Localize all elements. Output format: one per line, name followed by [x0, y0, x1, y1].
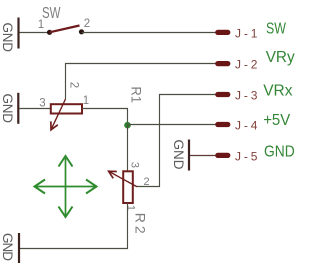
- wire: [19, 108, 50, 110]
- svg-text:J-3: J-3: [235, 88, 258, 102]
- switch SW: [38, 5, 90, 35]
- svg-text:2: 2: [144, 176, 150, 188]
- pin J-3: [218, 83, 293, 103]
- pin J-2: [218, 49, 295, 71]
- svg-text:GND: GND: [171, 140, 186, 170]
- svg-text:GND: GND: [0, 23, 15, 53]
- potentiometer R2: [109, 162, 150, 234]
- ground: [0, 93, 18, 124]
- wire: [82, 109, 128, 126]
- wire: [128, 124, 218, 126]
- wire: [20, 203, 128, 249]
- svg-text:SW: SW: [266, 20, 287, 37]
- svg-text:J-5: J-5: [235, 149, 258, 163]
- wire: [190, 155, 217, 157]
- wire: [66, 64, 218, 100]
- svg-text:VRy: VRy: [266, 49, 295, 66]
- pin J-5: [218, 143, 295, 163]
- potentiometer R1: [39, 82, 144, 130]
- svg-text:VRx: VRx: [263, 83, 292, 100]
- svg-text:2: 2: [84, 18, 90, 30]
- pin J-4: [218, 112, 291, 132]
- svg-text:SW: SW: [42, 5, 61, 22]
- svg-text:2: 2: [67, 82, 79, 88]
- joystick direction arrows: [35, 156, 97, 217]
- svg-text:+5V: +5V: [263, 112, 290, 129]
- svg-text:1: 1: [125, 205, 137, 211]
- svg-text:GND: GND: [264, 143, 295, 160]
- svg-text:J-1: J-1: [235, 26, 258, 40]
- node junction: [124, 122, 131, 129]
- svg-text:3: 3: [128, 162, 140, 168]
- svg-text:GND: GND: [0, 233, 15, 261]
- ground: [0, 18, 19, 53]
- svg-text:3: 3: [39, 98, 45, 110]
- ground: [171, 140, 189, 171]
- svg-text:1: 1: [38, 19, 44, 31]
- svg-text:J-4: J-4: [235, 118, 258, 132]
- wire: [82, 32, 218, 34]
- svg-text:GND: GND: [0, 94, 15, 124]
- wire: [20, 32, 49, 34]
- svg-text:1: 1: [83, 95, 89, 107]
- pin J-1: [218, 20, 287, 40]
- wire: [127, 125, 129, 171]
- svg-text:R1: R1: [129, 87, 145, 104]
- svg-text:J-2: J-2: [235, 57, 258, 71]
- ground: [0, 233, 19, 263]
- wire: [137, 95, 217, 187]
